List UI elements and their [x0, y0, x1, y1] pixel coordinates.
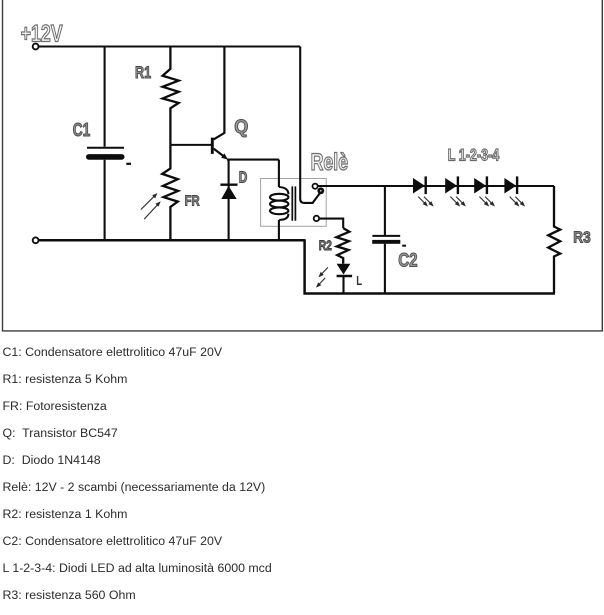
relay armature pivot contact	[319, 189, 323, 193]
LED L3 emission arrows	[479, 197, 493, 206]
svg-text:Relè: Relè	[311, 149, 349, 175]
svg-text:R2: R2	[319, 237, 332, 253]
svg-text:+12V: +12V	[21, 21, 63, 47]
node +12V terminal	[33, 44, 39, 50]
transistor Q emitter with arrow	[214, 149, 228, 160]
svg-text:R1: R1	[135, 63, 151, 82]
wire LED rail from relay contact	[318, 185, 554, 187]
svg-text:FR: FR	[185, 192, 200, 209]
relay coil feed wire	[278, 160, 280, 187]
transistor Q1 base bar	[211, 138, 214, 154]
wire +12V drop and relay armature	[300, 47, 320, 203]
capacitor C2	[372, 236, 406, 246]
FR light arrow 2	[144, 202, 160, 219]
LED L	[337, 264, 353, 276]
schematic frame border (left, bottom, right)	[3, 0, 603, 331]
wire ground rail left	[39, 239, 305, 242]
svg-text:R3: R3	[573, 230, 590, 247]
LED L3	[474, 176, 487, 194]
component list text	[3, 346, 223, 358]
wire C2 branch upper	[384, 186, 386, 235]
resistor R3	[548, 186, 560, 294]
LED L4 emission arrows	[510, 197, 524, 206]
wire emitter to relay coil	[227, 159, 279, 161]
relay lower fixed contact	[314, 216, 319, 221]
svg-text:Q: Q	[234, 116, 248, 138]
svg-text:C1: C1	[73, 120, 90, 140]
resistor R2	[336, 228, 349, 264]
wire C1 branch upper	[104, 47, 106, 147]
svg-text:L 1-2-3-4: L 1-2-3-4	[448, 146, 500, 165]
svg-text:C2: C2	[398, 249, 417, 271]
relay upper fixed contact	[313, 184, 318, 189]
relay core bars	[292, 186, 295, 220]
wire C1 branch lower	[104, 160, 106, 241]
LED L emission arrow 1	[320, 267, 328, 276]
photoresistor FR	[162, 145, 178, 240]
LED L1	[413, 176, 426, 194]
relay box	[261, 179, 327, 227]
LED L2	[445, 176, 458, 194]
diode D	[220, 185, 237, 199]
LED L emission arrow 2	[317, 278, 325, 287]
wire from lower contact to R2	[319, 219, 343, 229]
relay coil ground wire	[278, 220, 280, 240]
LED L4	[504, 176, 517, 194]
LED L2 emission arrows	[450, 197, 464, 206]
wire C2 branch lower	[384, 244, 386, 294]
svg-text:L: L	[356, 275, 362, 289]
LED L1 emission arrows	[418, 197, 432, 206]
node ground terminal	[33, 237, 39, 243]
wire LED L to ground	[342, 276, 344, 294]
relay coil	[270, 187, 288, 220]
resistor R1	[163, 47, 179, 145]
capacitor C1	[86, 148, 131, 164]
svg-text:D: D	[239, 168, 248, 186]
transistor Q collector	[214, 47, 225, 140]
wire base of Q	[170, 144, 211, 146]
FR light arrow 1	[141, 194, 157, 209]
wire ground step and right rail	[305, 239, 555, 293]
wire top rail from +12V terminal to relay drop	[39, 45, 301, 47]
diode D branch wire	[228, 160, 230, 241]
